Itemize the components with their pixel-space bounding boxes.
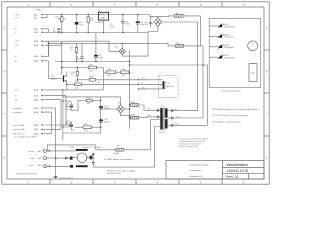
resistor R12 (77, 77, 100, 84)
svg-text:secondaire: secondaire (13, 107, 22, 110)
svg-text:Front panel module: Front panel module (222, 90, 242, 93)
notes right (213, 108, 259, 123)
svg-text:C: C (266, 113, 268, 117)
svg-text:10-16: 10-16 (34, 90, 39, 92)
svg-text:transformateur: transformateur (227, 163, 249, 167)
breaker CB1 (249, 64, 257, 82)
transistor Q1 (51, 62, 68, 90)
svg-text:10-11: 10-11 (34, 32, 38, 34)
svg-text:masse: masse (174, 124, 180, 126)
wire primary feeds (151, 120, 161, 168)
svg-text:et redresseur: et redresseur (189, 169, 201, 172)
svg-text:Transformateur torique: Transformateur torique (189, 164, 210, 167)
svg-text:A: A (4, 27, 6, 31)
potentiometer P1 (56, 15, 67, 33)
LED D9 (209, 54, 235, 59)
svg-text:4700u: 4700u (104, 108, 110, 110)
svg-text:prim: prim (147, 114, 151, 117)
wire secondary nets (171, 46, 207, 125)
resistor R3 (110, 24, 114, 28)
svg-text:AC3: AC3 (38, 164, 42, 167)
title block (166, 161, 264, 180)
svg-text:10-4: 10-4 (34, 14, 38, 16)
svg-text:D: D (266, 156, 268, 160)
wire bridge to panel (162, 22, 203, 118)
svg-text:+17V: +17V (15, 14, 20, 16)
fuse F2 (96, 145, 151, 155)
frame zone labels (3, 3, 267, 185)
motor M1 (76, 149, 88, 167)
svg-text:+17V: +17V (15, 41, 20, 43)
LED D6 (209, 23, 235, 28)
svg-text:100n: 100n (76, 59, 80, 61)
svg-text:secondaire: secondaire (13, 111, 22, 114)
wire neutral return (82, 163, 155, 168)
sheet pin flags (67, 107, 70, 110)
svg-text:10u: 10u (53, 30, 56, 32)
svg-text:Fusion 6C + fuse 3A: Fusion 6C + fuse 3A (82, 146, 101, 149)
svg-text:5.1V: 5.1V (80, 24, 85, 26)
svg-text:T1,T2,T3: fixes sur le circuit: T1,T2,T3: fixes sur le circuit imprime (213, 114, 249, 117)
bridge rectifier D2 top right (148, 15, 162, 33)
svg-text:10-27: 10-27 (34, 129, 39, 131)
svg-text:N1: 7805/07 montes sur dissipa: N1: 7805/07 montes sur dissipateur therm… (213, 108, 259, 111)
capacitor C9 (76, 43, 84, 61)
fusible resistor R19 (130, 115, 161, 119)
resistor R2 (87, 15, 94, 33)
voltmeter V1 (248, 41, 258, 51)
svg-text:10-31: 10-31 (34, 134, 39, 136)
frame column ticks (2, 2, 269, 184)
resistor R11 (88, 64, 96, 72)
svg-text:10u: 10u (141, 24, 144, 26)
svg-text:mise en off/M: mise en off/M (13, 129, 25, 131)
resistor R14 (121, 69, 129, 77)
legend notes (179, 138, 209, 148)
svg-text:10-20: 10-20 (34, 95, 39, 97)
capacitor C3 polarized (136, 15, 144, 33)
svg-text:10-28: 10-28 (34, 112, 39, 114)
wire stubs into connector (82, 80, 163, 89)
resistor R13 (106, 69, 116, 77)
svg-text:1k: 1k (71, 74, 73, 76)
front panel module box (209, 18, 261, 92)
svg-text:10-13: 10-13 (34, 41, 39, 43)
svg-text:1k: 1k (64, 19, 66, 21)
svg-text:LM7805: LM7805 (96, 22, 104, 24)
svg-text:P10A: P10A (36, 8, 41, 11)
svg-text:connexion chassis: connexion chassis (59, 178, 74, 180)
svg-text:14/04/12 13:18: 14/04/12 13:18 (227, 169, 248, 173)
svg-text:mise en off/M: mise en off/M (13, 125, 25, 127)
svg-text:Sheet: 1/1: Sheet: 1/1 (226, 175, 239, 179)
svg-text:de tension limite): de tension limite) (107, 172, 122, 175)
svg-text:alim electronic: alim electronic (13, 133, 25, 136)
wire mains rows (46, 108, 95, 176)
junction dots top rails (48, 14, 139, 44)
svg-text:47n: 47n (145, 24, 148, 26)
switch S1 right contact (87, 156, 93, 160)
resistor R7 vertical (71, 43, 78, 61)
LED D7 (209, 34, 234, 39)
fuse F3 (158, 13, 201, 46)
svg-text:(Montage carter fusible et reg: (Montage carter fusible et reglage (107, 169, 135, 172)
svg-text:10-24: 10-24 (34, 100, 39, 102)
svg-text:4700u: 4700u (104, 121, 110, 123)
svg-text:-15V present: -15V present (224, 46, 235, 49)
svg-text:+15V present: +15V present (224, 25, 235, 28)
capacitor C15 (65, 102, 73, 109)
svg-text:10-30: 10-30 (34, 125, 39, 127)
fuse holder F1 (93, 153, 134, 167)
comment box text (189, 164, 210, 179)
svg-text:AC1: AC1 (38, 150, 42, 153)
svg-text:+30V present: +30V present (224, 57, 235, 60)
regulator U1 7805 (96, 11, 109, 33)
svg-text:10k: 10k (75, 87, 78, 89)
net name labels left (13, 14, 25, 135)
svg-text:D: D (3, 156, 5, 160)
svg-text:sec2: sec2 (176, 116, 180, 118)
LED D8 (209, 44, 234, 49)
svg-text:neutre: neutre (30, 157, 35, 160)
capacitor C16 (65, 122, 73, 129)
svg-text:100n: 100n (126, 24, 130, 26)
svg-text:+5V present: +5V present (224, 36, 234, 39)
wire top rail +V (44, 15, 150, 33)
svg-text:terre: terre (30, 164, 34, 167)
svg-text:1k: 1k (71, 49, 73, 51)
note texts bottom left (14, 135, 101, 175)
svg-text:AC2: AC2 (38, 157, 42, 160)
switch S1 left contact (70, 147, 78, 168)
bridge rectifier D4 (115, 33, 148, 57)
svg-text:an: cablage interne 230V: an: cablage interne 230V (14, 135, 37, 138)
svg-text:sec1: sec1 (174, 109, 178, 111)
capacitor C2 (121, 15, 130, 33)
svg-text:2.2k: 2.2k (89, 70, 93, 72)
capacitor C13 polarized (99, 106, 109, 110)
svg-text:10-14: 10-14 (34, 45, 39, 47)
capacitor C1 (53, 28, 61, 33)
svg-text:A: A (266, 27, 268, 31)
resistor R10 vertical (71, 67, 78, 81)
sheet outer frame (2, 2, 269, 184)
resistor R15 (67, 81, 82, 89)
lower rails (63, 97, 130, 133)
wire left column bus (44, 96, 66, 134)
svg-text:F1, 3A et 5A max au secondaire: F1, 3A et 5A max au secondaire (104, 158, 133, 161)
svg-text:2x17V: 2x17V (159, 132, 165, 134)
svg-text:prim: prim (147, 108, 151, 111)
capacitor C8 polarized (94, 55, 103, 60)
svg-text:2.2k: 2.2k (110, 26, 114, 28)
svg-text:VI VO: VI VO (99, 14, 104, 16)
svg-text:phase: phase (29, 151, 34, 153)
bridge rectifier D5 (117, 103, 130, 116)
svg-text:B: B (4, 70, 6, 74)
dashed connector box (159, 76, 179, 98)
svg-text:C: C (3, 113, 5, 117)
ground symbol (54, 176, 74, 179)
svg-text:10-26: 10-26 (34, 108, 39, 110)
fusible resistor R18 (130, 102, 161, 110)
svg-text:10-3: 10-3 (34, 29, 38, 31)
svg-text:fusible: fusible (114, 153, 121, 155)
connector CON1 (163, 81, 165, 89)
svg-text:10-1: 10-1 (34, 18, 38, 20)
svg-text:10-15: 10-15 (34, 56, 39, 58)
note texts fan area (107, 169, 135, 175)
resistor R16 (86, 97, 92, 105)
svg-text:AL-12V: AL-12V (167, 85, 174, 88)
svg-text:Composant C3: Composant C3 (189, 175, 203, 178)
svg-text:10-18: 10-18 (34, 61, 39, 63)
resistor R17 (83, 124, 92, 132)
zener diode D1 (75, 15, 84, 33)
capacitor C4 (145, 17, 153, 28)
transformer T1 (159, 106, 172, 134)
fusible resistor R5 (175, 43, 204, 66)
wire middle feeds (44, 41, 175, 140)
svg-text:470u: 470u (99, 57, 103, 59)
svg-text:4.7k: 4.7k (97, 82, 101, 84)
capacitor C14 polarized (99, 119, 109, 123)
mains connector P1 (29, 149, 47, 167)
svg-text:D4: pont redresseur 1A: D4: pont redresseur 1A (179, 145, 198, 148)
svg-text:R7: reglage courant de sortie: R7: reglage courant de sortie (213, 120, 242, 123)
connector J1 pins left column (34, 14, 45, 136)
svg-text:BD907: BD907 (51, 79, 58, 81)
middle 0V wiring (61, 33, 207, 129)
svg-text:B: B (266, 70, 268, 74)
svg-text:PRISE SECTEUR 230V: PRISE SECTEUR 230V (16, 173, 38, 175)
